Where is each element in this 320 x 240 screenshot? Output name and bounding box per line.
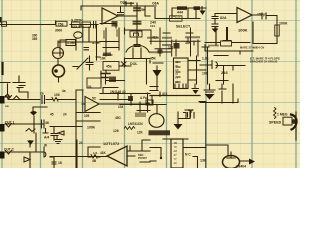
svg-text:13K: 13K: [200, 159, 207, 163]
svg-text:2N404: 2N404: [236, 165, 246, 168]
svg-text:1N4148 42: 1N4148 42: [110, 90, 126, 94]
svg-text:1 MEG: 1 MEG: [277, 113, 288, 117]
svg-text:1.2K: 1.2K: [202, 57, 209, 61]
svg-text:OUT C: OUT C: [4, 148, 15, 152]
svg-text:105: 105: [84, 114, 90, 118]
svg-text:365: 365: [32, 37, 38, 41]
svg-text:MARC 27 4M/D4 OV: MARC 27 4M/D4 OV: [240, 46, 264, 50]
svg-text:45C: 45C: [115, 116, 122, 120]
svg-text:150pf: 150pf: [257, 12, 267, 16]
svg-text:10: 10: [175, 80, 179, 84]
svg-text:10: 10: [174, 161, 178, 165]
svg-text:50.: 50.: [88, 85, 92, 89]
svg-text:PIVOT: PIVOT: [138, 156, 147, 160]
svg-text:100K: 100K: [238, 27, 248, 32]
svg-text:45K: 45K: [185, 41, 192, 45]
svg-text:41K: 41K: [100, 151, 107, 155]
svg-text:OUT 1: OUT 1: [5, 120, 15, 124]
svg-text:756: 756: [58, 22, 64, 26]
svg-text:T=0.15: T=0.15: [171, 14, 181, 18]
svg-text:7.5K: 7.5K: [138, 8, 146, 12]
svg-text:41K: 41K: [152, 35, 159, 39]
svg-text:101: 101: [202, 72, 208, 76]
svg-text:DOL: DOL: [130, 62, 138, 66]
svg-text:24: 24: [79, 141, 83, 145]
svg-text:BRACHER OY KRAUS: BRACHER OY KRAUS: [250, 60, 278, 64]
svg-text:126: 126: [113, 129, 119, 133]
svg-text:45: 45: [50, 112, 54, 116]
svg-text:101: 101: [168, 45, 174, 49]
svg-text:104: 104: [118, 105, 124, 109]
svg-text:SELECT: SELECT: [176, 25, 191, 29]
svg-text:1.5M: 1.5M: [67, 41, 75, 45]
svg-text:na: na: [5, 104, 9, 108]
svg-text:82A: 82A: [220, 16, 227, 20]
svg-text:100K: 100K: [279, 21, 288, 25]
svg-text:322 104: 322 104: [71, 25, 84, 29]
svg-text:1K: 1K: [58, 161, 63, 165]
svg-text:1.5.: 1.5.: [93, 151, 98, 155]
svg-text:A Fa: A Fa: [140, 96, 147, 100]
svg-text:1/2TL072: 1/2TL072: [103, 142, 119, 146]
svg-text:24: 24: [63, 112, 67, 116]
svg-text:9.25TK: 9.25TK: [71, 19, 83, 23]
svg-text:W: W: [44, 144, 47, 148]
svg-text:SPEED: SPEED: [269, 121, 282, 125]
svg-text:A/4: A/4: [44, 135, 49, 139]
svg-text:4B: 4B: [92, 159, 97, 163]
svg-text:474: 474: [162, 92, 168, 96]
svg-text:100K: 100K: [87, 126, 96, 130]
svg-text:10K: 10K: [100, 57, 107, 61]
svg-text:104: 104: [150, 24, 155, 28]
svg-text:216: 216: [221, 70, 228, 75]
svg-text:5C: 5C: [92, 97, 97, 101]
svg-text:45K: 45K: [150, 57, 157, 61]
svg-text:41K: 41K: [194, 7, 201, 11]
svg-text:3000: 3000: [55, 28, 62, 32]
svg-text:O6A: O6A: [152, 1, 160, 5]
svg-text:106: 106: [54, 93, 60, 97]
svg-text:5.7K: 5.7K: [92, 41, 100, 45]
svg-text:45a: 45a: [106, 64, 112, 68]
svg-text:LM741CN: LM741CN: [128, 122, 143, 126]
svg-text:N C: N C: [185, 153, 191, 157]
svg-text:4K: 4K: [45, 121, 50, 125]
svg-text:12K: 12K: [137, 131, 144, 135]
svg-text:4a: 4a: [62, 89, 66, 93]
svg-text:2a: 2a: [40, 91, 44, 95]
svg-text:COC: COC: [120, 1, 128, 5]
